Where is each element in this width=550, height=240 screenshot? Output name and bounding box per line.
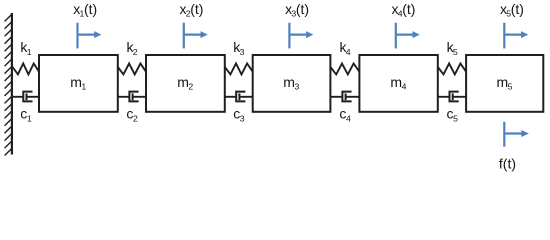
displacement arrow x3(t)	[289, 23, 313, 49]
svg-text:x1(t): x1(t)	[73, 1, 97, 19]
displacement arrow x4(t)	[396, 23, 420, 49]
displacement arrow x1(t)	[78, 23, 102, 49]
displacement arrow x2(t)	[184, 23, 208, 49]
svg-text:x5(t): x5(t)	[500, 1, 524, 19]
damper c3	[225, 92, 253, 102]
svg-text:c2: c2	[126, 106, 138, 124]
mass m1	[39, 55, 118, 112]
svg-text:k5: k5	[447, 39, 458, 57]
spring k4	[330, 64, 359, 75]
spring k5	[438, 64, 466, 75]
svg-text:f(t): f(t)	[499, 156, 516, 172]
svg-text:c5: c5	[447, 106, 459, 124]
svg-text:k1: k1	[20, 39, 31, 57]
damper c5	[438, 92, 466, 102]
damper c2	[118, 92, 146, 102]
svg-text:x3(t): x3(t)	[285, 1, 309, 19]
svg-text:k3: k3	[233, 39, 244, 57]
mass m2	[146, 55, 225, 112]
svg-text:c1: c1	[20, 106, 32, 124]
wall (fixed support, hatched)	[5, 13, 12, 156]
svg-text:c4: c4	[339, 106, 351, 124]
svg-text:x2(t): x2(t)	[180, 1, 204, 19]
mass m5	[466, 55, 543, 112]
svg-text:k2: k2	[127, 39, 138, 57]
spring k1	[13, 64, 39, 75]
displacement arrow x5(t)	[504, 23, 528, 49]
spring k2	[118, 64, 146, 75]
svg-text:k4: k4	[340, 39, 351, 57]
damper c1	[13, 92, 39, 102]
svg-text:x4(t): x4(t)	[392, 1, 416, 19]
spring k3	[225, 64, 253, 75]
mass m3	[253, 55, 331, 112]
svg-text:c3: c3	[233, 106, 245, 124]
damper c4	[330, 92, 359, 102]
force arrow f(t)	[504, 122, 529, 147]
mass m4	[359, 55, 437, 112]
